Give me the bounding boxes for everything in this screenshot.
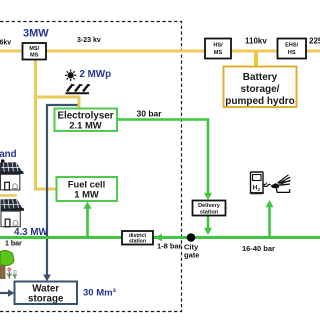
svg-text:HS/: HS/ [213,43,223,49]
icon: house 1 with PV roof [0,160,24,190]
city gate node [187,233,196,242]
wire: green arrow up into fuel cell [86,206,89,237]
icon: tree [0,250,14,278]
svg-text:EHS/: EHS/ [285,43,299,49]
transformer HS/MS [205,39,231,59]
svg-text:1 bar: 1 bar [5,241,22,248]
arrowhead into district station [155,234,162,242]
svg-text:3-23 kv: 3-23 kv [77,37,101,44]
svg-text:HS: HS [288,50,296,56]
svg-text:30 bar: 30 bar [137,109,163,119]
svg-text:storage: storage [28,294,64,305]
fuel cell box [57,177,118,201]
icon: house 2 with PV roof [1,199,25,227]
svg-text:2.1 MW: 2.1 MW [69,120,101,131]
icon: H2 dispenser [250,172,267,194]
delivery station box [193,201,226,216]
district station box [122,231,153,245]
svg-text:Battery: Battery [243,72,278,83]
icon: car [264,175,291,193]
wire: yellow stub to houses [0,194,17,197]
svg-text:1-8 bar: 1-8 bar [157,242,182,251]
svg-text:16-40 bar: 16-40 bar [242,244,275,253]
wire: green arrow up to H2 refuelling [268,205,271,237]
wire: navy water line electrolyser to water storage [47,105,78,277]
svg-text:MS: MS [30,53,39,59]
arrowhead into water storage top [43,275,51,282]
transformer EHS/HS [278,39,307,59]
svg-text:225 kv: 225 kv [309,37,320,46]
wire: green below delivery station [207,215,210,230]
wire: yellow HV trunk 6kv to 225kv [0,50,320,53]
svg-text:gate: gate [184,251,199,260]
wire: green main pipeline [0,236,320,239]
dashed island boundary [0,22,182,312]
icon: flowers [7,267,17,279]
svg-text:3MW: 3MW [23,28,49,40]
svg-text:station: station [129,239,146,245]
transformer MS/MS [23,43,47,60]
svg-text:2 MWp: 2 MWp [80,69,112,80]
svg-text:110kv: 110kv [245,37,267,46]
wire: green 30 bar hydrogen line [117,120,208,195]
icon: sun [65,70,76,81]
wire: yellow jog to electrolyser top (PV feed) [34,97,79,109]
svg-text:land: land [0,149,17,160]
svg-text:station: station [200,210,219,216]
svg-text:4.3 MW: 4.3 MW [14,227,49,238]
svg-text:1 MW: 1 MW [74,189,99,200]
svg-text:30 Mm³: 30 Mm³ [83,288,116,299]
svg-text:6kv: 6kv [0,40,11,47]
svg-text:MS: MS [214,50,223,56]
wire: yellow drop to battery storage [254,52,258,67]
electrolyser box [55,109,118,132]
svg-text:Delivery: Delivery [198,203,221,209]
battery storage / pumped hydro box [224,67,297,108]
icon: PV panel array [66,85,91,94]
svg-text:pumped hydro: pumped hydro [225,96,294,107]
svg-text:MS/: MS/ [29,46,39,52]
water storage box [15,282,78,305]
arrowhead into delivery station [204,193,212,200]
svg-text:storage/: storage/ [241,84,280,95]
wire: yellow MS/MS down + to fuel cell [36,59,58,189]
wire: navy arrow into water storage left [0,292,11,294]
